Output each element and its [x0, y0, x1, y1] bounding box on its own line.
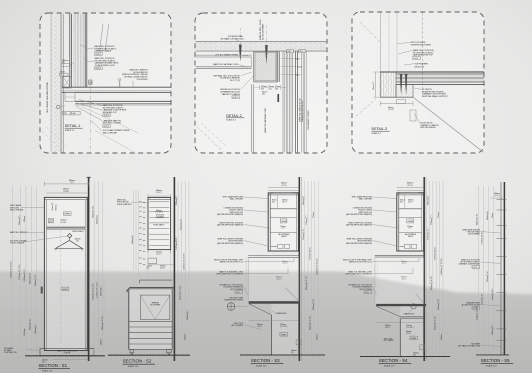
S2 backsplash	[140, 280, 173, 283]
detail 3: wall verticals above counter	[381, 13, 423, 97]
S2 drawers	[129, 321, 172, 349]
svg-text:FOR FIXING: FOR FIXING	[137, 79, 148, 81]
S4 rail below cabinet	[375, 255, 424, 257]
svg-text:SECTION - S5: SECTION - S5	[481, 358, 510, 363]
svg-text:1,170mm (3'-10"): 1,170mm (3'-10")	[482, 231, 484, 245]
svg-text:10mm: 10mm	[295, 74, 301, 76]
svg-text:GYP-1: GYP-1	[95, 54, 101, 56]
detail 1: corner break dashes	[42, 107, 139, 153]
detail 2: curtain wall line group B	[302, 51, 307, 152]
S3 recess fill	[248, 257, 299, 301]
S2 mirror recess panel	[140, 295, 169, 319]
S5 note tile base	[458, 342, 480, 347]
detail 2: curtain wall line group A	[283, 51, 297, 152]
detail 1: left small tag B	[60, 72, 68, 76]
svg-text:LAMINATE CLATHBOARD: LAMINATE CLATHBOARD	[459, 263, 481, 266]
S4 lower labels	[384, 325, 425, 357]
S1 floor hatch	[24, 356, 105, 359]
S3 upper cabinet	[268, 193, 298, 251]
svg-text:(AS PER APPROVED SAMPLE): (AS PER APPROVED SAMPLE)	[217, 224, 243, 227]
S2 top dim	[148, 190, 171, 198]
svg-text:(1 1/2"): (1 1/2")	[388, 109, 395, 111]
detail 1: leaders to corner	[71, 45, 103, 132]
svg-text:SCALE 1:10: SCALE 1:10	[486, 364, 496, 367]
S2 right dim chains	[178, 181, 189, 352]
S3 floor hatch	[240, 355, 321, 358]
S5 note plywood	[459, 258, 481, 268]
svg-text:W12: W12	[288, 51, 292, 53]
S2 shelves	[149, 202, 169, 246]
svg-text:16: 16	[89, 81, 93, 85]
S3 rail below cabinet	[248, 256, 299, 265]
svg-text:450mm (1'-6"): 450mm (1'-6")	[181, 218, 183, 230]
S2 mid small box	[147, 258, 175, 270]
S1 left note base	[4, 347, 17, 354]
S1 floor line	[25, 355, 105, 357]
svg-text:TL-1: TL-1	[365, 292, 369, 294]
svg-text:MAIN TILE, NATURAL CORK: MAIN TILE, NATURAL CORK	[264, 107, 267, 133]
detail 2: right tags	[287, 49, 305, 53]
detail 3: support bracket below	[397, 100, 417, 122]
svg-text:SCALE 1:2: SCALE 1:2	[226, 119, 235, 122]
svg-text:230mm (9"): 230mm (9")	[101, 286, 103, 296]
S5 note leaders	[481, 232, 502, 347]
S3 counter band	[249, 301, 300, 304]
svg-text:(1'-0 3/4"): (1'-0 3/4")	[155, 212, 163, 214]
detail 2: anchor bolt B	[265, 25, 268, 65]
detail box 1 frame	[40, 13, 171, 153]
svg-text:(1/2"): (1/2")	[49, 221, 54, 223]
svg-text:25mm (1"): 25mm (1")	[373, 81, 375, 90]
S3 left leaders	[235, 197, 294, 330]
S5 top dim	[490, 193, 504, 198]
detail 1: tick marker on band	[118, 78, 121, 88]
detail 3: corner break dashes	[356, 22, 381, 116]
svg-text:1,375mm (4'-6"): 1,375mm (4'-6")	[176, 237, 178, 250]
detail 3: title	[372, 127, 390, 135]
svg-text:2,400mm (7'-10 1/2"): 2,400mm (7'-10 1/2")	[316, 258, 318, 275]
svg-text:GYP-1: GYP-1	[104, 126, 110, 128]
svg-text:W13: W13	[299, 51, 303, 53]
svg-text:DETAIL-2: DETAIL-2	[226, 114, 242, 118]
S2 feet	[130, 349, 171, 354]
detail box 2 frame	[195, 13, 327, 153]
detail 2: shade boxes below blocking	[254, 85, 286, 102]
detail 1: note block T1	[95, 45, 117, 56]
svg-text:(7"): (7")	[409, 228, 412, 230]
S4 under-counter slant and shelf	[376, 306, 424, 356]
svg-text:DETAIL-1: DETAIL-1	[65, 124, 81, 128]
S2 left leader	[131, 201, 148, 204]
svg-text:SCALE 1:10: SCALE 1:10	[384, 364, 394, 367]
detail 3: top note pro edge	[411, 42, 432, 46]
S3 cabinet cells	[270, 195, 296, 249]
detail 3: note solid wood	[420, 123, 439, 130]
svg-text:RED LED FINISH: RED LED FINISH	[420, 127, 436, 129]
svg-text:100mm: 100mm	[316, 334, 318, 340]
detail 3: wood block left	[380, 72, 396, 97]
S4 drain circle	[404, 304, 417, 316]
S1 left dim texts	[11, 215, 37, 336]
S3 wall line	[299, 177, 301, 361]
svg-text:2,170mm (7'-1 1/2"): 2,170mm (7'-1 1/2")	[19, 264, 21, 280]
S4 recess region	[375, 257, 424, 304]
svg-text:100mm: 100mm	[441, 334, 443, 340]
S4 wall line	[424, 177, 426, 361]
S4 left notes column	[343, 196, 373, 294]
detail 3: bottom dim 40mm	[380, 101, 413, 111]
detail 1: ceiling band	[62, 87, 171, 92]
svg-text:GROUT FINISH: GROUT FINISH	[359, 289, 373, 291]
detail 1: note block T2	[95, 57, 119, 70]
svg-text:L-P-1: L-P-1	[473, 308, 477, 310]
svg-text:375mm: 375mm	[438, 212, 440, 218]
detail 3: note plywood support	[414, 88, 449, 98]
S2 counter top	[126, 287, 173, 292]
S3 title	[251, 358, 283, 368]
detail 2: slab band	[196, 41, 327, 51]
S3 left notes column	[214, 196, 244, 327]
S1 left note spec	[10, 204, 24, 211]
svg-text:375mm (1'-3"): 375mm (1'-3")	[428, 228, 430, 240]
svg-text:OPEN: OPEN	[281, 334, 287, 336]
detail 3: slip feather note	[415, 62, 429, 68]
svg-text:(WIRE & HOOK UP BY G.L.): (WIRE & HOOK UP BY G.L.)	[220, 262, 243, 264]
svg-text:OPEN: OPEN	[408, 221, 414, 223]
S5 note head wire	[462, 228, 480, 235]
svg-text:1,905mm (6'-3"): 1,905mm (6'-3")	[24, 269, 26, 282]
S2 left dim texts	[102, 235, 134, 330]
S2 open tag	[157, 214, 164, 218]
svg-text:SCALE 1:10: SCALE 1:10	[256, 364, 266, 367]
detail 2: lower verticals from blocking	[252, 84, 254, 152]
detail 1: upper leader lines	[100, 24, 109, 51]
svg-text:100mm: 100mm	[101, 339, 103, 345]
S2 floor line	[108, 354, 190, 356]
S1 top dims	[44, 180, 89, 193]
svg-text:(3"): (3")	[275, 88, 278, 90]
svg-text:300mm (1'): 300mm (1')	[97, 215, 99, 224]
svg-text:WALL CHROME: WALL CHROME	[10, 208, 24, 211]
svg-text:(3"): (3")	[400, 202, 403, 204]
detail 3: bolts	[400, 75, 408, 96]
svg-text:SCALE 1:10: SCALE 1:10	[128, 365, 138, 368]
S1 open tag upper	[63, 212, 71, 216]
svg-text:95mm (3 3/4"): 95mm (3 3/4")	[492, 288, 494, 300]
S5 panel lines	[501, 182, 504, 355]
svg-text:850mm (2'-9 1/2"): 850mm (2'-9 1/2")	[102, 315, 104, 330]
detail 2: rotated track note	[260, 19, 265, 40]
svg-text:SHEARED PAINTED IN 6": SHEARED PAINTED IN 6"	[301, 99, 304, 122]
S1 title	[39, 363, 71, 372]
svg-text:560mm: 560mm	[56, 204, 58, 210]
svg-text:(1'-1 1/2"): (1'-1 1/2")	[406, 327, 414, 329]
svg-text:(2'-0"): (2'-0")	[495, 195, 500, 197]
detail box 3 frame	[352, 12, 484, 153]
svg-text:2,170mm (7'-1 1/2"): 2,170mm (7'-1 1/2")	[97, 282, 99, 298]
S3 right dim chains	[305, 181, 319, 355]
S2 shelf note	[153, 210, 164, 227]
svg-text:WALL CHROME: WALL CHROME	[230, 198, 244, 201]
S5 note laminate tape	[462, 301, 481, 309]
svg-text:(4"): (4")	[291, 352, 294, 354]
svg-text:(1'-0"): (1'-0")	[257, 326, 262, 328]
S3 drain note	[272, 311, 288, 315]
svg-text:(1'-7"): (1'-7")	[282, 202, 287, 204]
svg-text:10mm: 10mm	[295, 58, 301, 60]
svg-text:25mm: 25mm	[297, 66, 303, 68]
S3 recess region	[246, 257, 299, 301]
S1 hanger rod	[67, 234, 71, 238]
S1 wall cap	[87, 176, 91, 178]
svg-text:BF (35 left): BF (35 left)	[415, 65, 425, 68]
svg-text:(AS PER APPROVED SAMPLE): (AS PER APPROVED SAMPLE)	[217, 213, 243, 216]
svg-text:2,400mm (7'-10 1/2"): 2,400mm (7'-10 1/2")	[184, 253, 186, 270]
svg-text:GROUT FINISH: GROUT FINISH	[230, 289, 244, 291]
S4 floor line	[360, 356, 450, 358]
S1 wall line	[88, 177, 90, 361]
svg-text:535mm (1'-9"): 535mm (1'-9")	[487, 270, 489, 282]
S2 shelf pins	[139, 201, 145, 264]
svg-text:(1'-7"): (1'-7")	[408, 202, 413, 204]
detail 1: note block T5	[103, 119, 122, 128]
S3 lower labels	[257, 324, 301, 354]
svg-text:SCALE 1:2: SCALE 1:2	[65, 129, 74, 132]
svg-text:(6"): (6")	[261, 88, 264, 90]
S2 wall line	[173, 177, 175, 361]
svg-text:SHOE & BATTED: SHOE & BATTED	[117, 203, 132, 206]
svg-text:GYP. BD. W/PAINT FINISH: GYP. BD. W/PAINT FINISH	[215, 54, 239, 57]
svg-text:VERTICAL PANEL SUPPORT: VERTICAL PANEL SUPPORT	[422, 95, 448, 98]
svg-text:95mm: 95mm	[492, 213, 494, 218]
floor dark region	[0, 272, 532, 373]
detail 1: note block T6	[103, 129, 130, 134]
svg-text:CURTAIN BY OTHERS: CURTAIN BY OTHERS	[307, 110, 310, 130]
svg-text:100mm (4"): 100mm (4")	[187, 310, 189, 320]
S4 right dim chains	[429, 181, 443, 356]
svg-text:(BY MAIN CONTRACTOR): (BY MAIN CONTRACTOR)	[221, 37, 244, 40]
S4 title	[379, 358, 411, 368]
svg-text:170mm (7"): 170mm (7")	[306, 215, 308, 225]
detail 3: laminate layers	[396, 74, 484, 84]
detail 2: center wood blocking	[254, 51, 280, 82]
detail 1: section cut marker	[89, 80, 93, 85]
svg-text:EDGE AND TOP: EDGE AND TOP	[103, 111, 118, 114]
svg-text:SHELF: SHELF	[281, 236, 287, 238]
svg-text:375mm: 375mm	[313, 212, 315, 218]
S2 left dim chains	[99, 190, 139, 352]
svg-text:(AS PER APPROVED SAMPLE): (AS PER APPROVED SAMPLE)	[346, 213, 372, 216]
svg-text:MAIN TILE, NATURAL CORK: MAIN TILE, NATURAL CORK	[213, 63, 239, 66]
svg-text:WOOD GROUNDS: WOOD GROUNDS	[263, 23, 265, 40]
svg-text:LAMINATE WORK TOP: LAMINATE WORK TOP	[413, 54, 434, 57]
svg-text:100mm (4"): 100mm (4")	[492, 325, 494, 335]
svg-text:600mm (2'): 600mm (2')	[428, 196, 430, 205]
svg-text:(1'-2 1/2"): (1'-2 1/2")	[280, 326, 288, 328]
detail 1: lower band	[75, 101, 171, 105]
svg-text:SCALE 1:2: SCALE 1:2	[372, 132, 381, 135]
svg-text:FIXED SHELF: FIXED SHELF	[153, 225, 164, 227]
svg-text:560mm (1'-10"): 560mm (1'-10")	[92, 205, 94, 218]
svg-text:TO BE SCREW @ 4TH.: TO BE SCREW @ 4TH.	[95, 65, 116, 67]
S2 vanity body	[129, 289, 172, 350]
S4 counter band	[376, 304, 426, 306]
svg-text:CONTRACTOR: CONTRACTOR	[4, 351, 17, 354]
S1 right dim texts	[92, 205, 102, 345]
detail 1: centerline	[89, 80, 91, 153]
svg-text:OPEN: OPEN	[281, 221, 287, 223]
S1 left dim chains	[13, 186, 37, 355]
svg-text:DRAIN HOLE: DRAIN HOLE	[276, 312, 287, 315]
svg-text:L-P-1: L-P-1	[414, 58, 419, 60]
S2 upper cabinet	[148, 198, 171, 250]
svg-text:900mm (3'): 900mm (3')	[132, 235, 134, 244]
S2 right dim texts	[176, 196, 189, 340]
svg-text:375mm (1'-3"): 375mm (1'-3")	[303, 228, 305, 240]
detail 3: top note worktop	[413, 49, 434, 60]
detail 1: left small tag A	[62, 60, 70, 66]
svg-text:600mm (2'): 600mm (2')	[176, 196, 178, 205]
svg-text:1,375mm (4'-6"): 1,375mm (4'-6")	[310, 247, 312, 260]
S1 base plinth	[40, 349, 94, 356]
svg-text:MAIN TILE, GRACE WOOD: MAIN TILE, GRACE WOOD	[298, 98, 301, 122]
svg-text:OPEN: OPEN	[64, 214, 70, 216]
svg-text:(AS PER APPROVED SAMPLE): (AS PER APPROVED SAMPLE)	[217, 242, 243, 245]
svg-text:GYP-1: GYP-1	[104, 115, 110, 117]
detail 1: note block T4	[103, 104, 127, 117]
detail 1: note block T3	[122, 69, 148, 81]
S1 coat hanger	[55, 238, 83, 250]
svg-text:(3"): (3")	[262, 94, 265, 96]
S5 title	[481, 358, 513, 368]
svg-text:535mm (1'-9"): 535mm (1'-9")	[482, 293, 484, 305]
svg-text:900mm (3'-0"): 900mm (3'-0")	[438, 298, 440, 310]
svg-text:BY OTHERS: BY OTHERS	[384, 340, 395, 342]
S2 floor hatch	[110, 355, 185, 358]
S3 dim line lower	[249, 320, 299, 322]
svg-text:TL-1: TL-1	[236, 292, 240, 294]
detail 2: left wall layers	[196, 55, 252, 69]
svg-text:OPEN: OPEN	[62, 289, 68, 291]
svg-text:OVER 16MM THK. ROUGHERTE: OVER 16MM THK. ROUGHERTE	[345, 274, 373, 276]
detail 2: title	[226, 114, 244, 122]
svg-text:SCALE 1:10: SCALE 1:10	[42, 369, 52, 372]
svg-text:(2'): (2')	[71, 182, 74, 184]
svg-text:(AS PER APPROVED SAMPLE): (AS PER APPROVED SAMPLE)	[346, 242, 372, 245]
svg-text:L-P-1: L-P-1	[473, 267, 477, 269]
svg-text:300mm (1'-0"): 300mm (1'-0")	[35, 274, 37, 286]
S5 panel ticks	[497, 200, 507, 341]
detail 1: wall board double line	[62, 14, 64, 153]
S4 top dims	[397, 183, 424, 195]
S5 floor tick	[476, 354, 509, 356]
detail 2: dims below blocking	[261, 86, 281, 96]
svg-text:850mm (2'-9 1/2"): 850mm (2'-9 1/2")	[434, 315, 436, 330]
S4 dim line lower	[376, 322, 423, 324]
S1 cabinet outline	[44, 197, 87, 350]
detail 3: bottom line of block	[380, 96, 413, 98]
S1 inner dim notes	[48, 202, 67, 224]
svg-text:SECTION - S4: SECTION - S4	[379, 358, 408, 363]
detail 3: mirror diagonal	[413, 97, 484, 152]
svg-text:2,400mm (7'-10 1/2"): 2,400mm (7'-10 1/2")	[92, 283, 94, 300]
detail 3: leader solid wood	[414, 113, 420, 123]
svg-text:850mm (2'-9 1/2"): 850mm (2'-9 1/2")	[310, 315, 312, 330]
S4 recess fill	[375, 257, 424, 304]
svg-text:TILE CEMENT LEVELING MORTAR: TILE CEMENT LEVELING MORTAR	[46, 82, 49, 113]
S4 cabinet cells	[399, 195, 422, 249]
svg-text:(1'-10"): (1'-10")	[61, 222, 67, 224]
svg-text:SHELF: SHELF	[408, 236, 414, 238]
S3 floor line	[240, 354, 325, 356]
svg-text:OVER 16MM THK. ROUGHERTE: OVER 16MM THK. ROUGHERTE	[216, 274, 244, 276]
S1 left note pole	[10, 240, 27, 245]
svg-text:825mm (2'-8 1/2"): 825mm (2'-8 1/2")	[180, 285, 182, 300]
detail 2: left note solid wood	[213, 74, 240, 82]
svg-text:FIXED SHELF: FIXED SHELF	[72, 231, 84, 233]
S4 upper cabinet	[397, 193, 424, 251]
svg-text:750: 750	[64, 113, 67, 115]
svg-text:WALL CHROME: WALL CHROME	[103, 132, 118, 135]
svg-text:BY OTHERS: BY OTHERS	[150, 305, 161, 307]
S2 below cabinet bracket	[148, 250, 171, 256]
svg-text:GYP-1: GYP-1	[233, 97, 239, 99]
S5 base hatch	[500, 342, 504, 354]
svg-text:PAINTED TO MATCH: PAINTED TO MATCH	[222, 93, 241, 96]
detail 3: counter top line	[380, 71, 484, 73]
S3 spray circle symbol	[227, 303, 235, 311]
svg-text:600mm (2'-0"): 600mm (2'-0")	[477, 213, 479, 225]
svg-text:(2'-0"): (2'-0")	[156, 192, 161, 194]
svg-text:W/ APPROVED FINISH: W/ APPROVED FINISH	[411, 44, 432, 47]
detail 3: top leaders	[397, 43, 414, 65]
S4 right dim texts	[428, 196, 444, 340]
svg-text:(1'-1"): (1'-1")	[157, 253, 162, 255]
svg-text:(BY MAIN CONTRACTOR): (BY MAIN CONTRACTOR)	[458, 345, 480, 348]
svg-text:(2'-0"): (2'-0")	[407, 185, 412, 187]
svg-text:(1'-10"): (1'-10")	[63, 191, 69, 193]
svg-text:600mm (2'): 600mm (2')	[303, 196, 305, 205]
svg-text:GYP-1: GYP-1	[95, 68, 101, 70]
detail 2: left note exterior wall	[221, 35, 244, 41]
detail 1: corner joint detail	[56, 92, 80, 115]
svg-text:600mm (2'): 600mm (2')	[487, 211, 489, 220]
svg-text:825mm (2'-8 1/2"): 825mm (2'-8 1/2")	[431, 275, 433, 290]
svg-text:POLE & FLANGE: POLE & FLANGE	[10, 242, 25, 245]
svg-text:170mm (7"): 170mm (7")	[431, 215, 433, 225]
svg-text:900mm (3'-0"): 900mm (3'-0")	[313, 298, 315, 310]
svg-text:DRAIN HOLE: DRAIN HOLE	[404, 313, 415, 316]
svg-text:(2"): (2")	[269, 88, 272, 90]
detail 1: note leader T3	[132, 81, 134, 87]
svg-text:2,400mm (7'-10 1/2"): 2,400mm (7'-10 1/2")	[441, 258, 443, 275]
S4 mid dim	[401, 261, 407, 281]
S2 vanity fill	[129, 287, 172, 349]
svg-text:1,905mm: 1,905mm	[24, 328, 26, 336]
S3 top dims	[268, 183, 299, 195]
svg-text:PLINTH: PLINTH	[64, 353, 71, 355]
S3 counter slant and leg	[249, 304, 299, 355]
svg-text:840mm (2'-9"): 840mm (2'-9")	[30, 272, 32, 284]
svg-text:SECTION - S3: SECTION - S3	[251, 358, 280, 363]
svg-text:W/APPROVED FINISH: W/APPROVED FINISH	[224, 299, 243, 302]
detail 2: corner break dashes	[197, 123, 226, 152]
S1 open tag lower	[61, 287, 69, 291]
detail 1: blocking with X	[63, 77, 72, 88]
svg-text:SOLID BRAND: SOLID BRAND	[468, 233, 481, 236]
svg-text:WALL CHROME: WALL CHROME	[359, 198, 373, 201]
svg-text:(2'-0"): (2'-0")	[281, 185, 286, 187]
